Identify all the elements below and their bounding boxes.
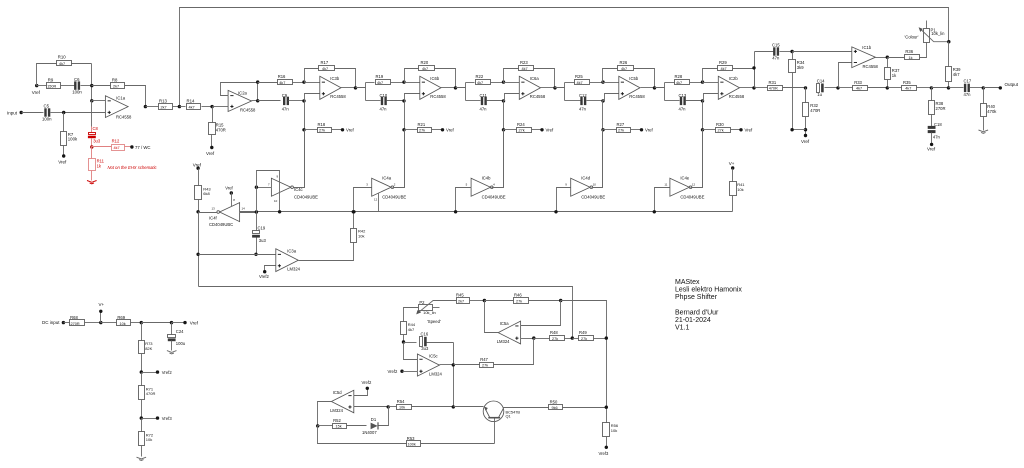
svg-text:470R: 470R	[810, 108, 820, 113]
svg-text:R35: R35	[903, 80, 911, 85]
svg-text:27k: 27k	[519, 129, 525, 133]
svg-text:V1.1: V1.1	[675, 325, 690, 332]
svg-text:10k: 10k	[737, 187, 743, 192]
wire IC2a output riser	[257, 83, 259, 101]
svg-text:Input: Input	[7, 110, 18, 115]
svg-text:CD4049UBE: CD4049UBE	[294, 194, 318, 199]
diode D1	[362, 407, 389, 436]
svg-text:4k7: 4k7	[377, 81, 383, 85]
svg-text:LM324: LM324	[497, 339, 510, 344]
op-amp IC2a	[213, 90, 257, 112]
capacitor C9	[258, 93, 305, 111]
wire IC4c input riser	[256, 188, 258, 213]
wire Q1 collector to R50	[504, 407, 549, 409]
wire LFO mid bus	[240, 211, 733, 213]
svg-text:150R: 150R	[47, 84, 56, 88]
svg-text:RC4558: RC4558	[530, 94, 546, 99]
svg-text:4k7: 4k7	[621, 67, 627, 71]
wire IC4a input	[354, 188, 372, 212]
node IC3b output	[354, 86, 357, 89]
svg-text:IC4a: IC4a	[382, 175, 392, 180]
svg-text:C24: C24	[176, 329, 184, 334]
wire input to IC1a plus	[64, 112, 106, 114]
svg-text:CD4049UBE: CD4049UBE	[581, 194, 605, 199]
wire IC5c output	[440, 364, 454, 366]
svg-text:IC3a: IC3a	[287, 249, 297, 254]
svg-text:Q1: Q1	[506, 414, 511, 419]
svg-text:47n: 47n	[772, 55, 780, 60]
svg-text:R20: R20	[421, 60, 429, 65]
wire IC5a output riser	[485, 301, 499, 333]
resistor R15	[206, 107, 226, 157]
resistor R39	[946, 42, 962, 88]
svg-text:C11: C11	[480, 93, 488, 98]
svg-text:4k7: 4k7	[189, 105, 195, 109]
node IC6a output	[553, 86, 556, 89]
wire input line	[22, 112, 42, 114]
svg-text:27k: 27k	[718, 129, 724, 133]
resistor R69	[101, 315, 142, 326]
node R37 bottom	[886, 86, 889, 89]
node red junction	[90, 145, 93, 148]
node IC2b minus	[701, 80, 704, 83]
wire minus line	[199, 254, 276, 256]
wire IC4f right to node	[240, 212, 257, 214]
node R29 fb/output	[752, 66, 755, 69]
node IC5c riser / base line	[452, 405, 455, 408]
svg-text:R16: R16	[278, 74, 286, 79]
op-amp IC6b	[405, 76, 447, 100]
svg-text:47n: 47n	[282, 107, 290, 112]
op-amp IC1b	[852, 45, 879, 69]
node IC6a plus/cap	[502, 99, 505, 102]
svg-text:CD4049UBE: CD4049UBE	[482, 194, 506, 199]
resistor R13	[146, 99, 180, 110]
wire IC4a output	[393, 130, 405, 188]
svg-text:IC5a: IC5a	[500, 321, 510, 326]
capacitor C18	[927, 122, 942, 152]
node IC5b plus/cap	[601, 99, 604, 102]
svg-text:LM324: LM324	[429, 372, 442, 377]
svg-text:V+: V+	[729, 161, 735, 166]
svg-text:IC5b: IC5b	[629, 76, 639, 81]
svg-text:270R: 270R	[71, 322, 80, 326]
svg-text:R68: R68	[70, 315, 78, 320]
op-amp IC6a	[504, 76, 546, 100]
wire IC6b output	[441, 87, 456, 89]
capacitor C13	[665, 93, 703, 111]
svg-text:Phpse Shifter: Phpse Shifter	[675, 294, 718, 301]
wire stage to inverter	[503, 130, 505, 188]
svg-text:RC4558: RC4558	[116, 114, 132, 119]
resistor R42	[351, 212, 367, 243]
node IC6b output	[454, 86, 457, 89]
svg-text:IC1a: IC1a	[116, 96, 126, 101]
resistor R12 (red)	[92, 139, 132, 151]
svg-text:4k7: 4k7	[322, 67, 328, 71]
svg-text:R30: R30	[716, 122, 724, 127]
svg-text:4k7: 4k7	[279, 81, 285, 85]
node R44/C16/IC5c minus	[402, 340, 405, 343]
svg-text:R8: R8	[112, 78, 118, 83]
wire IC4d output	[592, 130, 603, 188]
svg-text:4k7: 4k7	[676, 81, 682, 85]
svg-text:27k: 27k	[581, 337, 587, 341]
svg-text:DC input: DC input	[42, 320, 60, 325]
svg-text:47n: 47n	[480, 107, 488, 112]
svg-text:470R: 470R	[146, 391, 156, 396]
svg-text:4k7: 4k7	[577, 81, 583, 85]
node input/R7 junction	[62, 111, 65, 114]
node 77/WC terminal	[130, 145, 150, 150]
node Vref stub IC4f	[225, 185, 235, 206]
node R42 on bus	[352, 210, 355, 213]
node Vref2 at IC5d minus	[354, 380, 373, 395]
resistor R8	[92, 78, 146, 107]
resistor R52	[318, 418, 367, 429]
wire R10 down to minus node	[91, 64, 93, 101]
svg-text:RC4558: RC4558	[330, 94, 346, 99]
svg-text:RC4558: RC4558	[240, 108, 256, 113]
svg-text:470R: 470R	[769, 87, 778, 91]
node IC5b minus	[601, 80, 604, 83]
capacitor C17	[964, 78, 984, 96]
node Vref2 at IC5c plus	[388, 369, 418, 374]
svg-text:CD4049UBE: CD4049UBE	[680, 194, 704, 199]
svg-text:R26: R26	[620, 60, 628, 65]
wire to C24	[142, 322, 172, 324]
node IC4d input on bus	[554, 210, 557, 213]
capacitor C11	[466, 93, 504, 111]
svg-text:6k8: 6k8	[203, 191, 210, 196]
svg-text:R28: R28	[675, 74, 683, 79]
svg-text:C19: C19	[258, 226, 266, 231]
node IC6b minus	[402, 80, 405, 83]
svg-text:1N4007: 1N4007	[362, 430, 377, 435]
svg-text:27k: 27k	[516, 299, 522, 303]
svg-text:IC4f: IC4f	[209, 216, 218, 221]
svg-text:C10: C10	[380, 93, 388, 98]
node R52 left	[316, 424, 319, 427]
svg-text:R27: R27	[617, 122, 625, 127]
node IC2b plus/cap	[701, 99, 704, 102]
svg-text:C9: C9	[282, 93, 288, 98]
svg-text:10k: 10k	[399, 406, 405, 410]
resistor R41	[730, 169, 746, 212]
node Vref above R43	[193, 163, 202, 170]
node C14/IC1b minus riser	[836, 86, 839, 89]
svg-text:4k7: 4k7	[408, 327, 415, 332]
svg-text:27k: 27k	[319, 129, 325, 133]
node right rail / R50	[605, 406, 608, 409]
ground bottom left	[137, 457, 147, 459]
svg-text:4k7: 4k7	[422, 67, 428, 71]
op-amp IC3a	[276, 249, 301, 272]
inverter IC4d	[565, 175, 605, 199]
resistor R34	[789, 52, 806, 130]
resistor R24	[502, 101, 554, 133]
svg-text:R31: R31	[769, 80, 777, 85]
wire IC4d input	[557, 188, 571, 212]
svg-text:12: 12	[374, 198, 378, 202]
node R40 top	[982, 86, 985, 89]
svg-text:100u: 100u	[176, 341, 186, 346]
svg-text:V+: V+	[99, 302, 105, 307]
resistor R40	[981, 88, 998, 131]
resistor R45	[456, 293, 485, 304]
svg-text:IC3b: IC3b	[330, 76, 340, 81]
svg-text:R45: R45	[456, 293, 464, 298]
resistor R31	[755, 80, 806, 91]
node V+ tap	[99, 302, 105, 325]
svg-text:R21: R21	[418, 122, 426, 127]
svg-text:Not on the EHX schematic: Not on the EHX schematic	[108, 165, 158, 170]
svg-text:2k7: 2k7	[458, 299, 464, 303]
resistor R22	[466, 74, 504, 85]
svg-text:R48: R48	[550, 330, 558, 335]
capacitor C12	[565, 93, 603, 111]
svg-text:3k9: 3k9	[797, 65, 804, 70]
resistor R26 feedback	[603, 60, 655, 87]
wire to IC1b plus	[793, 51, 852, 53]
resistor R72	[139, 419, 154, 457]
wire IC3b output	[341, 87, 356, 89]
svg-text:RC4558: RC4558	[430, 94, 446, 99]
svg-text:RC4558: RC4558	[629, 94, 645, 99]
wire to Q1	[454, 406, 484, 408]
wire stage to inverter	[404, 130, 406, 188]
wire top feedback bus	[180, 8, 949, 107]
svg-text:R53: R53	[407, 436, 415, 441]
node feedback/R13/R14 junction	[178, 105, 181, 108]
svg-text:R19: R19	[376, 74, 384, 79]
resistor R44	[401, 322, 416, 343]
svg-text:'Speed': 'Speed'	[427, 319, 441, 324]
resistor R27	[601, 101, 653, 133]
svg-text:11: 11	[664, 183, 667, 187]
svg-text:CD4049UBE: CD4049UBE	[382, 194, 406, 199]
svg-text:IC4d: IC4d	[581, 175, 591, 180]
resistor R7	[58, 113, 78, 165]
wire IC3a output	[299, 243, 354, 261]
inverter IC4e	[664, 175, 704, 199]
svg-text:IC4b: IC4b	[482, 175, 492, 180]
svg-text:R29: R29	[719, 60, 727, 65]
resistor R21	[402, 101, 454, 133]
wire last stage output riser to C15	[754, 52, 756, 88]
capacitor C6	[61, 77, 92, 95]
svg-text:27k: 27k	[419, 129, 425, 133]
node R9/C6/R10 junction	[90, 84, 93, 87]
resistor R68	[64, 315, 101, 326]
wire IC2a output to node	[252, 100, 258, 102]
wire IC5a minus	[521, 301, 561, 326]
wire IC2b output	[740, 87, 755, 89]
op-amp IC3b	[305, 76, 347, 100]
svg-text:10k: 10k	[611, 428, 617, 433]
resistor R73	[139, 323, 154, 373]
wire IC4c input loop	[257, 171, 280, 212]
resistor R33	[839, 80, 888, 91]
wire C16 right riser	[453, 343, 455, 407]
svg-text:4k7: 4k7	[59, 62, 65, 66]
node IC2a output	[256, 99, 259, 102]
node Vref2 tap	[140, 370, 173, 375]
svg-text:2k7: 2k7	[113, 84, 119, 88]
svg-text:77 / WC: 77 / WC	[135, 145, 151, 150]
capacitor C14	[817, 79, 839, 97]
node IC4b input on bus	[454, 210, 457, 213]
wire stage to inverter	[702, 130, 704, 188]
wire IC4b input	[456, 188, 472, 212]
op-amp IC5a (comparator)	[497, 321, 521, 344]
svg-text:P2: P2	[419, 300, 425, 305]
node C15/R34/IC1b plus	[790, 50, 793, 53]
svg-text:R17: R17	[321, 60, 329, 65]
node Vref top-left	[32, 84, 41, 95]
svg-text:4k7: 4k7	[721, 67, 727, 71]
op-amp IC2b	[703, 76, 745, 100]
svg-text:Vref: Vref	[801, 139, 810, 144]
svg-text:Vref: Vref	[745, 128, 754, 133]
wire bottom long bus	[199, 287, 573, 339]
wire bottom return	[318, 426, 407, 444]
node Output	[984, 82, 1019, 89]
node IC1a minus	[90, 99, 93, 102]
svg-text:4k7: 4k7	[114, 146, 120, 150]
node IC1b output	[876, 56, 890, 59]
resistor R50	[549, 399, 607, 410]
svg-text:C6: C6	[74, 77, 80, 82]
wire main to C17	[949, 87, 964, 89]
node IC5a minus riser	[559, 299, 562, 302]
node IC1a output	[144, 105, 147, 108]
svg-text:'Colour': 'Colour'	[905, 35, 919, 40]
svg-text:47n: 47n	[579, 107, 587, 112]
capacitor C8 (red)	[88, 126, 101, 147]
resistor R23 feedback	[504, 60, 555, 87]
svg-text:4k7: 4k7	[856, 87, 862, 91]
svg-text:10: 10	[593, 183, 597, 187]
svg-text:82K: 82K	[145, 346, 152, 351]
svg-text:IC2a: IC2a	[238, 90, 248, 95]
node Input	[7, 110, 23, 115]
svg-text:270R: 270R	[936, 106, 946, 111]
node R32 top	[804, 86, 807, 89]
inverter IC4b	[466, 175, 506, 199]
svg-text:27k: 27k	[618, 129, 624, 133]
svg-text:10k: 10k	[358, 233, 364, 238]
svg-text:R49: R49	[579, 330, 587, 335]
svg-text:Vref: Vref	[645, 128, 654, 133]
svg-text:2k7: 2k7	[161, 105, 167, 109]
svg-text:4k7: 4k7	[477, 81, 483, 85]
potentiometer P1	[905, 21, 949, 43]
inverter IC4c	[268, 174, 318, 203]
svg-text:IC6a: IC6a	[530, 76, 540, 81]
svg-text:R9: R9	[48, 78, 54, 83]
svg-text:R69: R69	[117, 315, 125, 320]
svg-text:4k7: 4k7	[953, 72, 960, 77]
wire IC4c input	[257, 187, 272, 189]
node bus left end	[196, 210, 199, 213]
svg-text:C14: C14	[817, 79, 825, 84]
svg-text:C18: C18	[934, 122, 942, 127]
node DC input	[42, 320, 65, 325]
resistor R43	[195, 169, 212, 212]
node IC6b plus/cap	[402, 99, 405, 102]
node IC2a plus	[210, 105, 213, 108]
node IC4a input on bus	[352, 210, 355, 213]
resistor R54	[389, 399, 454, 410]
svg-text:Vref: Vref	[927, 147, 936, 152]
svg-text:RC4558: RC4558	[863, 64, 879, 69]
node IC5d plus/D1	[387, 405, 390, 408]
node IC6a minus	[502, 80, 505, 83]
svg-text:Vref: Vref	[32, 90, 41, 95]
resistor R11 (red)	[89, 147, 105, 181]
svg-text:9k6: 9k6	[552, 406, 558, 410]
node Vref power	[172, 320, 199, 325]
wire interstage split	[655, 83, 665, 88]
node R45/R46/IC5a out	[483, 299, 486, 302]
svg-text:CD4049UBC: CD4049UBC	[209, 222, 233, 227]
wire IC5d output	[318, 402, 332, 426]
svg-text:C17: C17	[964, 78, 972, 83]
resistor R71	[139, 373, 156, 419]
wire IC4b output	[492, 130, 504, 188]
node bottom bus / R48-R49	[571, 336, 574, 339]
resistor R30	[701, 101, 753, 133]
wire R38node to R39node	[932, 87, 949, 89]
svg-text:Vref2: Vref2	[162, 370, 173, 375]
svg-text:R54: R54	[397, 399, 405, 404]
node Vref3 tap	[140, 416, 173, 421]
node P1 wiper / top bus	[947, 40, 950, 43]
svg-text:C5: C5	[44, 104, 50, 109]
svg-text:R14: R14	[187, 99, 195, 104]
svg-text:Vref2: Vref2	[362, 380, 373, 385]
op-amp IC5d (reversed)	[330, 390, 354, 413]
svg-text:Vref: Vref	[206, 151, 215, 156]
resistor R29 feedback	[703, 60, 755, 87]
svg-text:IC5c: IC5c	[429, 354, 438, 359]
svg-text:Lesli elektro Hamonix: Lesli elektro Hamonix	[675, 287, 742, 294]
wire Q1 base down	[494, 419, 496, 444]
svg-text:Vref: Vref	[346, 128, 355, 133]
node IC4c input	[255, 186, 258, 189]
capacitor C10	[366, 93, 405, 111]
svg-text:13: 13	[212, 206, 216, 210]
svg-text:15k: 15k	[336, 425, 342, 429]
svg-text:100n: 100n	[42, 117, 52, 122]
svg-text:3u3: 3u3	[421, 346, 429, 351]
svg-text:10k_lin: 10k_lin	[423, 310, 436, 315]
node right rail / R49	[605, 336, 608, 339]
wire IC5a plus	[521, 338, 534, 340]
node R38 top	[930, 86, 933, 89]
node loop on bus	[278, 210, 281, 213]
svg-text:R23: R23	[520, 60, 528, 65]
wire interstage split	[555, 83, 565, 88]
node Vref2 at IC3a plus	[259, 266, 276, 280]
svg-text:12: 12	[692, 183, 696, 187]
svg-text:R24: R24	[517, 122, 525, 127]
wire interstage split	[456, 83, 466, 88]
resistor R16	[258, 74, 305, 85]
svg-text:R46: R46	[514, 293, 522, 298]
ground under C24	[167, 351, 177, 353]
